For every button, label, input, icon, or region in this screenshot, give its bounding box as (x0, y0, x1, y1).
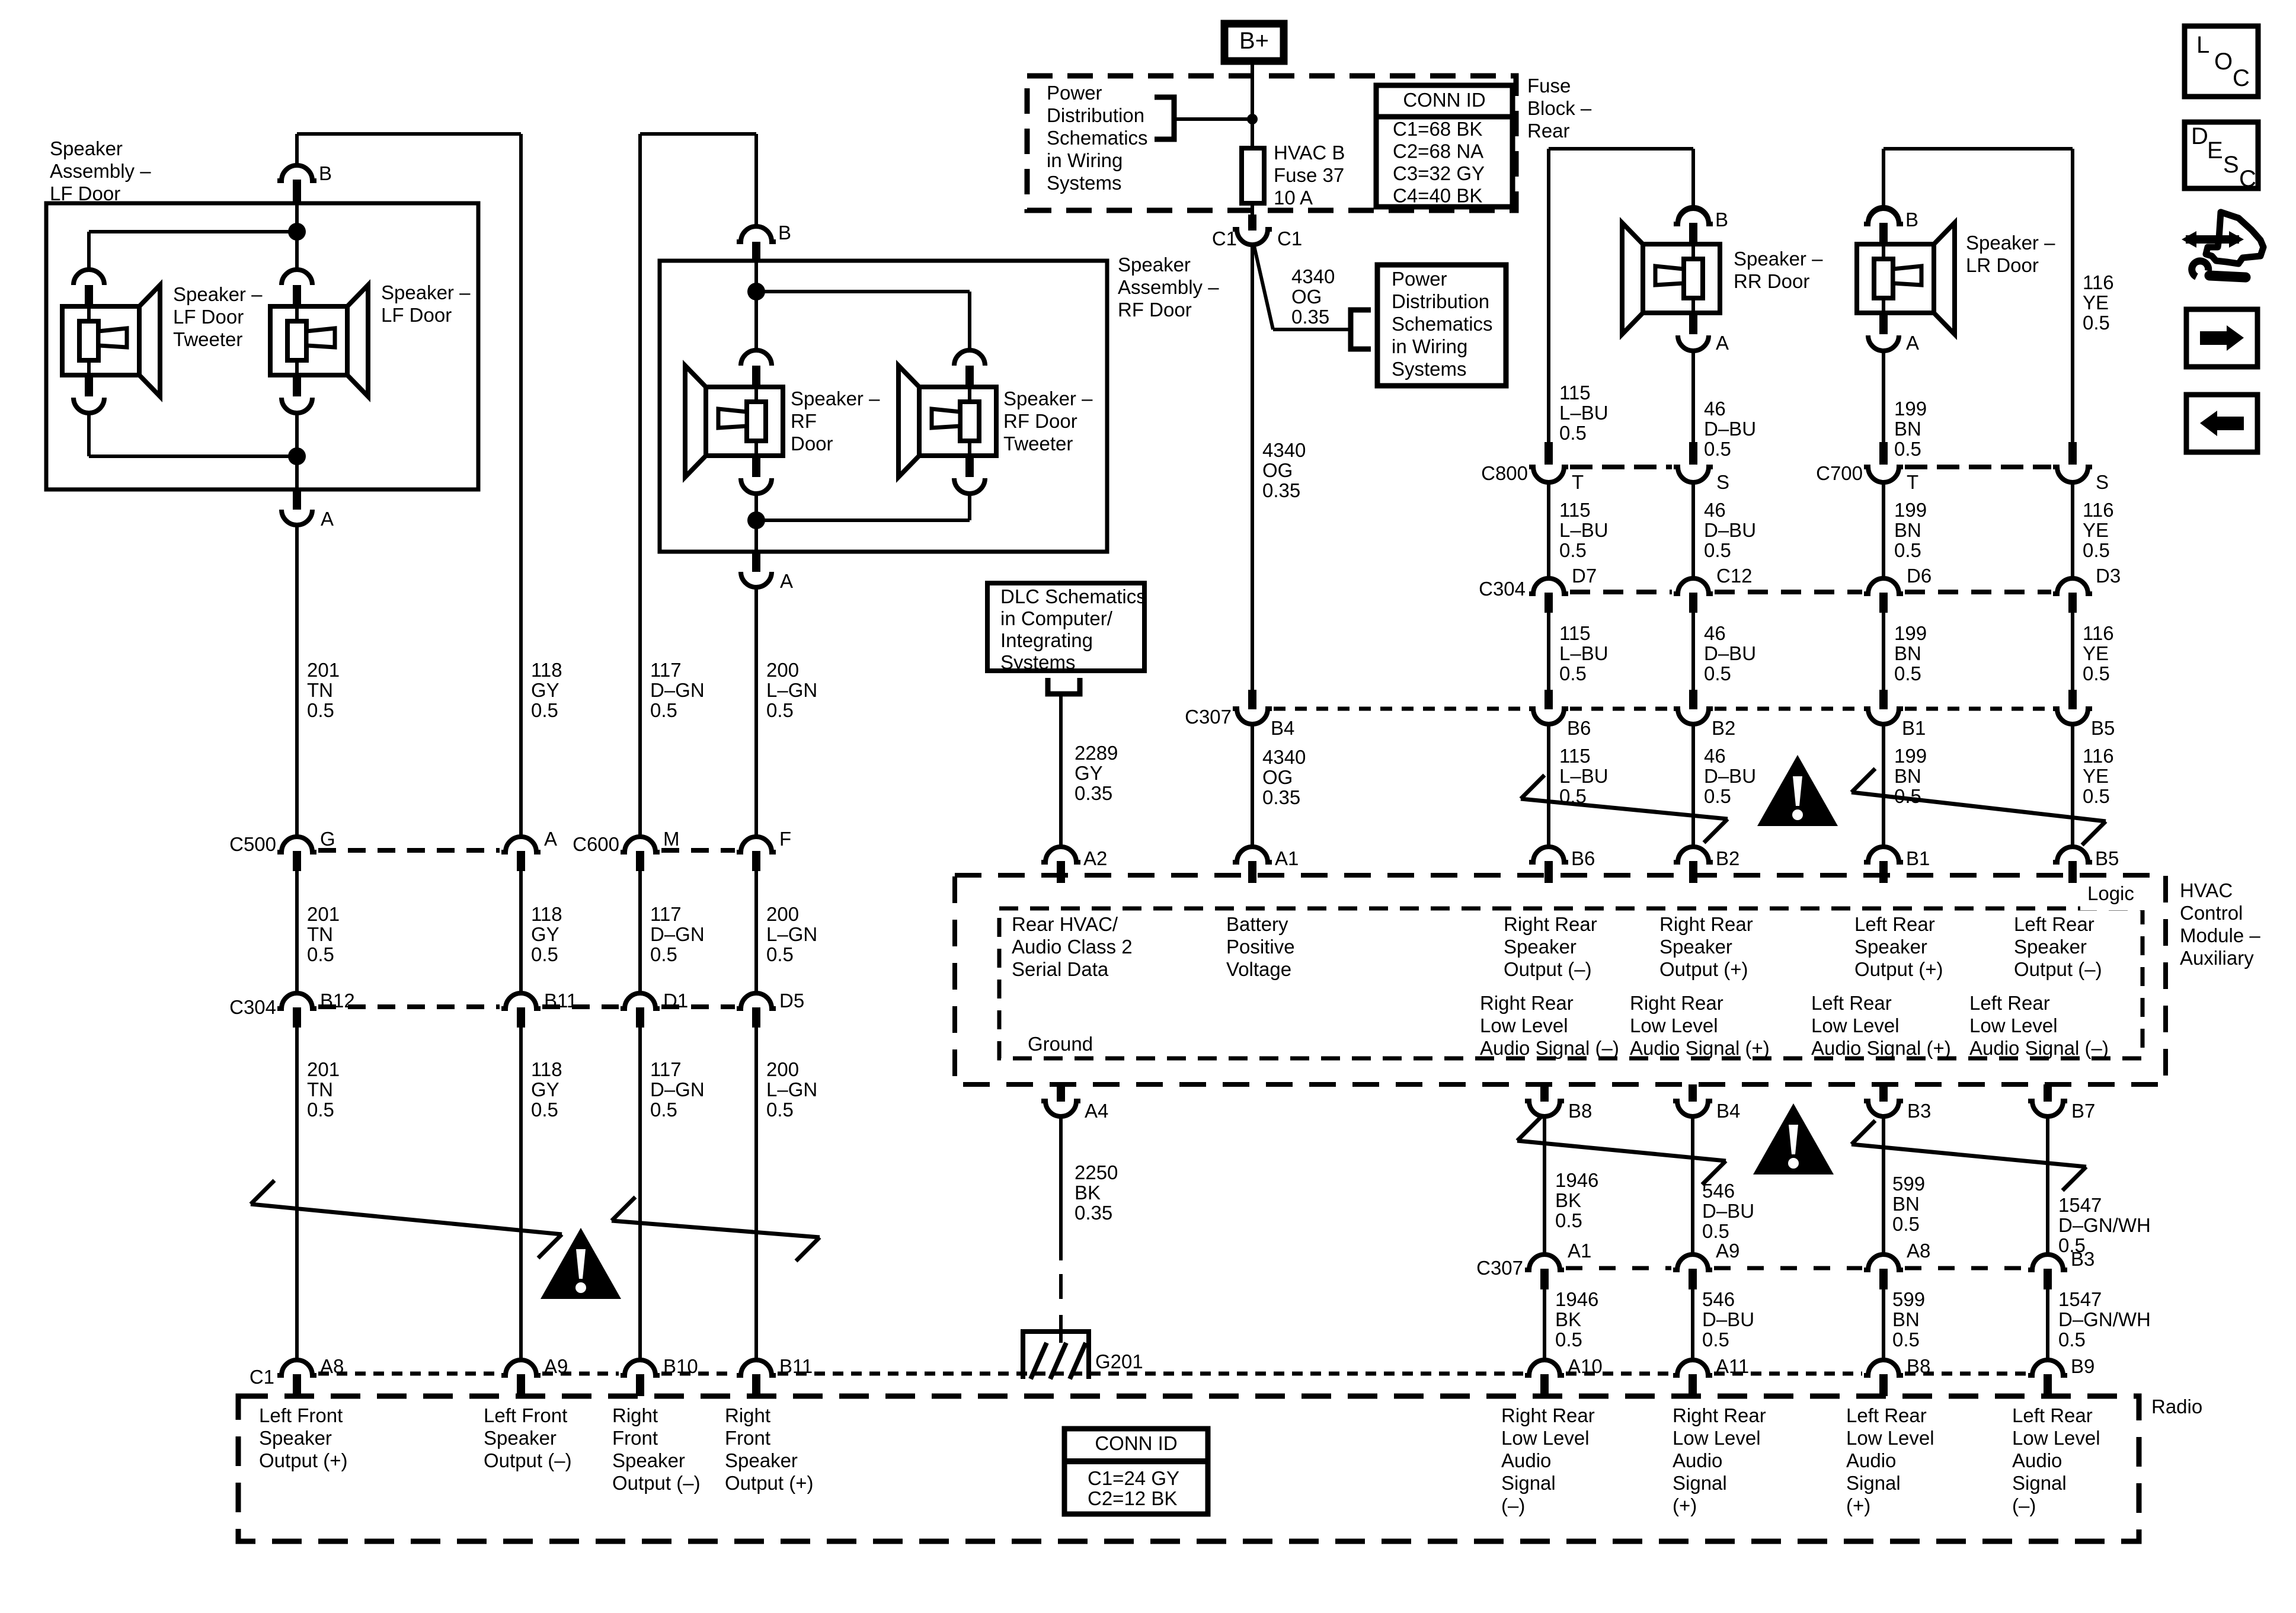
svg-text:B: B (319, 162, 332, 184)
svg-text:BN: BN (1894, 519, 1921, 541)
svg-text:Battery: Battery (1226, 913, 1288, 935)
svg-text:0.5: 0.5 (531, 943, 558, 965)
svg-text:0.5: 0.5 (2058, 1329, 2086, 1350)
svg-text:115: 115 (1559, 622, 1591, 644)
svg-text:46: 46 (1704, 622, 1726, 644)
svg-text:Distribution: Distribution (1047, 104, 1144, 126)
svg-text:Front: Front (725, 1427, 770, 1449)
svg-text:0.5: 0.5 (1702, 1329, 1729, 1350)
svg-text:B2: B2 (1716, 847, 1739, 869)
svg-text:116: 116 (2083, 499, 2114, 521)
svg-text:0.5: 0.5 (650, 1099, 677, 1121)
svg-text:S: S (1716, 471, 1729, 493)
svg-text:Signal: Signal (1846, 1472, 1901, 1494)
svg-text:D–BU: D–BU (1704, 642, 1756, 664)
svg-text:GY: GY (531, 679, 559, 701)
svg-text:(+): (+) (1846, 1494, 1870, 1516)
svg-text:Right Rear: Right Rear (1673, 1404, 1766, 1426)
svg-text:201: 201 (307, 1058, 340, 1080)
svg-text:L–BU: L–BU (1559, 402, 1609, 424)
svg-text:201: 201 (307, 903, 340, 925)
svg-text:1547: 1547 (2058, 1288, 2102, 1310)
svg-text:B3: B3 (1907, 1100, 1931, 1122)
svg-text:B: B (778, 222, 791, 244)
svg-text:HVAC B: HVAC B (1274, 142, 1345, 164)
svg-text:C: C (2239, 166, 2256, 192)
svg-text:RF: RF (791, 410, 817, 432)
svg-text:Right Rear: Right Rear (1480, 992, 1574, 1014)
svg-text:199: 199 (1894, 499, 1927, 521)
svg-text:Right Rear: Right Rear (1630, 992, 1723, 1014)
svg-text:Schematics: Schematics (1392, 313, 1493, 335)
svg-text:A4: A4 (1085, 1100, 1108, 1122)
svg-text:0.5: 0.5 (650, 699, 677, 721)
svg-text:A8: A8 (1907, 1240, 1930, 1262)
svg-text:0.5: 0.5 (307, 1099, 334, 1121)
svg-text:0.35: 0.35 (1262, 786, 1300, 808)
svg-text:OG: OG (1262, 459, 1293, 481)
svg-text:Speaker: Speaker (259, 1427, 332, 1449)
svg-text:118: 118 (531, 659, 562, 681)
svg-text:RR Door: RR Door (1734, 270, 1809, 292)
svg-text:L–BU: L–BU (1559, 765, 1609, 787)
svg-text:L–GN: L–GN (766, 923, 817, 945)
svg-text:0.5: 0.5 (1894, 539, 1921, 561)
svg-text:YE: YE (2083, 292, 2109, 313)
svg-text:Speaker –: Speaker – (1734, 248, 1823, 270)
svg-text:Module –: Module – (2180, 924, 2260, 946)
svg-text:TN: TN (307, 1078, 333, 1100)
svg-text:D–GN/WH: D–GN/WH (2058, 1308, 2151, 1330)
svg-text:Rear HVAC/: Rear HVAC/ (1012, 913, 1118, 935)
svg-text:B2: B2 (1712, 717, 1735, 739)
svg-text:D–BU: D–BU (1704, 418, 1756, 440)
svg-text:117: 117 (650, 1058, 682, 1080)
svg-text:0.35: 0.35 (1262, 479, 1300, 501)
svg-text:Auxiliary: Auxiliary (2180, 947, 2254, 969)
svg-text:0.5: 0.5 (1704, 663, 1731, 684)
svg-text:C800: C800 (1481, 462, 1528, 484)
svg-text:0.5: 0.5 (531, 1099, 558, 1121)
svg-text:599: 599 (1892, 1288, 1925, 1310)
svg-text:Audio Class 2: Audio Class 2 (1012, 936, 1133, 958)
svg-text:Speaker: Speaker (725, 1449, 798, 1471)
svg-text:LR Door: LR Door (1966, 254, 2039, 276)
svg-text:Low Level: Low Level (1846, 1427, 1934, 1449)
svg-text:Speaker –: Speaker – (1003, 388, 1093, 409)
svg-text:Low Level: Low Level (1630, 1014, 1718, 1036)
svg-text:O: O (2214, 49, 2233, 75)
svg-text:Signal: Signal (1501, 1472, 1556, 1494)
svg-text:L–GN: L–GN (766, 1078, 817, 1100)
svg-text:D–GN: D–GN (650, 923, 705, 945)
svg-text:0.35: 0.35 (1075, 782, 1112, 804)
svg-text:C: C (2233, 65, 2250, 91)
svg-text:B: B (1715, 209, 1728, 231)
svg-text:B6: B6 (1571, 847, 1595, 869)
svg-text:0.5: 0.5 (1555, 1329, 1582, 1350)
svg-text:Signal: Signal (1673, 1472, 1727, 1494)
svg-text:Tweeter: Tweeter (173, 328, 242, 350)
svg-text:Distribution: Distribution (1392, 290, 1489, 312)
svg-text:117: 117 (650, 659, 682, 681)
svg-text:0.5: 0.5 (1704, 539, 1731, 561)
svg-text:Output (–): Output (–) (612, 1472, 701, 1494)
svg-text:Signal: Signal (2012, 1472, 2067, 1494)
svg-text:199: 199 (1894, 398, 1927, 420)
svg-text:BK: BK (1555, 1189, 1581, 1211)
svg-text:118: 118 (531, 903, 562, 925)
svg-text:B6: B6 (1567, 717, 1591, 739)
svg-text:Speaker –: Speaker – (791, 388, 880, 409)
svg-text:Audio: Audio (2012, 1449, 2062, 1471)
svg-text:C1: C1 (250, 1366, 274, 1388)
svg-text:CONN ID: CONN ID (1095, 1432, 1177, 1454)
svg-text:0.5: 0.5 (1894, 663, 1921, 684)
svg-text:A2: A2 (1083, 847, 1107, 869)
svg-text:OG: OG (1262, 766, 1293, 788)
svg-text:0.5: 0.5 (1894, 438, 1921, 460)
svg-text:117: 117 (650, 903, 682, 925)
svg-text:Speaker: Speaker (1504, 936, 1576, 958)
svg-text:GY: GY (1075, 762, 1103, 784)
svg-text:200: 200 (766, 659, 799, 681)
svg-text:(–): (–) (2012, 1494, 2036, 1516)
svg-text:Assembly –: Assembly – (50, 160, 151, 182)
svg-text:GY: GY (531, 923, 559, 945)
svg-text:10 A: 10 A (1274, 187, 1313, 209)
svg-text:Left Front: Left Front (484, 1404, 567, 1426)
svg-text:0.5: 0.5 (307, 943, 334, 965)
svg-text:Output (+): Output (+) (725, 1472, 813, 1494)
svg-text:Left Rear: Left Rear (1811, 992, 1892, 1014)
svg-text:C1: C1 (1277, 228, 1302, 249)
svg-text:115: 115 (1559, 745, 1591, 767)
svg-text:4340: 4340 (1262, 746, 1306, 768)
svg-text:2250: 2250 (1075, 1161, 1118, 1183)
svg-text:C307: C307 (1476, 1257, 1523, 1279)
svg-text:Audio: Audio (1673, 1449, 1722, 1471)
svg-text:A: A (321, 508, 334, 530)
svg-text:0.5: 0.5 (1702, 1220, 1729, 1242)
svg-text:YE: YE (2083, 765, 2109, 787)
svg-text:Speaker –: Speaker – (1966, 232, 2055, 254)
svg-text:0.5: 0.5 (2083, 539, 2110, 561)
svg-text:Schematics: Schematics (1047, 127, 1148, 149)
svg-text:Speaker: Speaker (1659, 936, 1732, 958)
svg-text:B5: B5 (2091, 717, 2115, 739)
svg-text:A9: A9 (1716, 1240, 1739, 1262)
svg-text:C304: C304 (1479, 578, 1526, 600)
svg-text:BN: BN (1894, 765, 1921, 787)
svg-text:201: 201 (307, 659, 340, 681)
svg-text:D–BU: D–BU (1704, 765, 1756, 787)
svg-text:C307: C307 (1185, 706, 1232, 728)
svg-text:0.5: 0.5 (2083, 785, 2110, 807)
svg-text:Audio: Audio (1501, 1449, 1551, 1471)
svg-text:0.5: 0.5 (531, 699, 558, 721)
svg-text:Speaker: Speaker (50, 137, 123, 159)
svg-text:Speaker –: Speaker – (173, 283, 263, 305)
svg-text:2289: 2289 (1075, 742, 1118, 764)
svg-text:Right: Right (612, 1404, 658, 1426)
svg-text:0.5: 0.5 (2083, 312, 2110, 334)
svg-text:D–GN: D–GN (650, 1078, 705, 1100)
svg-text:L–GN: L–GN (766, 679, 817, 701)
svg-text:Output (–): Output (–) (1504, 958, 1592, 980)
svg-text:199: 199 (1894, 622, 1927, 644)
svg-text:RF Door: RF Door (1118, 299, 1192, 321)
svg-text:B: B (1905, 209, 1918, 231)
svg-text:46: 46 (1704, 745, 1726, 767)
svg-text:1946: 1946 (1555, 1288, 1598, 1310)
svg-text:Fuse 37: Fuse 37 (1274, 164, 1344, 186)
svg-text:YE: YE (2083, 642, 2109, 664)
svg-text:Left Rear: Left Rear (1846, 1404, 1927, 1426)
svg-text:Output (+): Output (+) (1659, 958, 1748, 980)
svg-text:116: 116 (2083, 271, 2114, 293)
svg-text:F: F (779, 828, 791, 850)
svg-text:546: 546 (1702, 1180, 1735, 1202)
svg-text:LF Door: LF Door (50, 183, 120, 204)
svg-text:OG: OG (1291, 286, 1322, 308)
svg-text:D–BU: D–BU (1702, 1308, 1754, 1330)
svg-text:B4: B4 (1271, 717, 1294, 739)
svg-text:546: 546 (1702, 1288, 1735, 1310)
svg-text:Control: Control (2180, 902, 2243, 924)
svg-text:Output (–): Output (–) (2014, 958, 2102, 980)
svg-text:Audio Signal (+): Audio Signal (+) (1811, 1037, 1951, 1059)
svg-text:C304: C304 (229, 996, 276, 1018)
svg-text:4340: 4340 (1291, 265, 1335, 287)
svg-text:Speaker: Speaker (2014, 936, 2087, 958)
svg-text:Left Front: Left Front (259, 1404, 343, 1426)
svg-text:G: G (320, 828, 335, 850)
svg-text:Integrating: Integrating (1000, 629, 1093, 651)
svg-text:G201: G201 (1095, 1350, 1143, 1372)
svg-text:Power: Power (1047, 82, 1102, 104)
svg-text:(–): (–) (1501, 1494, 1525, 1516)
svg-text:(+): (+) (1673, 1494, 1697, 1516)
svg-text:M: M (663, 828, 680, 850)
svg-text:Low Level: Low Level (1969, 1014, 2058, 1036)
svg-text:1547: 1547 (2058, 1194, 2102, 1216)
svg-text:D–GN: D–GN (650, 679, 705, 701)
svg-text:Audio Signal (–): Audio Signal (–) (1480, 1037, 1619, 1059)
svg-text:4340: 4340 (1262, 439, 1306, 461)
svg-text:115: 115 (1559, 499, 1591, 521)
svg-text:0.5: 0.5 (766, 699, 794, 721)
svg-text:0.5: 0.5 (1559, 663, 1587, 684)
svg-text:Low Level: Low Level (1673, 1427, 1761, 1449)
svg-text:Low Level: Low Level (1480, 1014, 1568, 1036)
svg-text:B3: B3 (2071, 1248, 2094, 1270)
svg-text:D3: D3 (2096, 565, 2121, 587)
svg-text:L–BU: L–BU (1559, 519, 1609, 541)
svg-text:Low Level: Low Level (1501, 1427, 1590, 1449)
svg-text:Right Rear: Right Rear (1504, 913, 1597, 935)
svg-text:BN: BN (1892, 1193, 1920, 1215)
svg-text:599: 599 (1892, 1173, 1925, 1195)
svg-text:Left Rear: Left Rear (2012, 1404, 2093, 1426)
svg-text:Output (+): Output (+) (259, 1449, 347, 1471)
svg-text:0.35: 0.35 (1291, 306, 1329, 328)
svg-text:T: T (1907, 471, 1918, 493)
svg-text:Left Rear: Left Rear (1854, 913, 1935, 935)
svg-text:0.5: 0.5 (766, 943, 794, 965)
svg-text:T: T (1572, 471, 1584, 493)
svg-text:Power: Power (1392, 268, 1447, 290)
svg-text:B8: B8 (1568, 1100, 1592, 1122)
svg-text:B4: B4 (1716, 1100, 1740, 1122)
svg-text:Output (–): Output (–) (484, 1449, 572, 1471)
svg-text:0.5: 0.5 (307, 699, 334, 721)
svg-text:Output (+): Output (+) (1854, 958, 1943, 980)
svg-text:S: S (2096, 471, 2109, 493)
svg-text:C4=40 BK: C4=40 BK (1393, 185, 1482, 207)
svg-text:A: A (780, 570, 793, 592)
svg-text:1946: 1946 (1555, 1169, 1598, 1191)
svg-text:L–BU: L–BU (1559, 642, 1609, 664)
svg-text:116: 116 (2083, 745, 2114, 767)
svg-text:Low Level: Low Level (1811, 1014, 1900, 1036)
svg-text:Door: Door (791, 433, 833, 455)
svg-text:DLC Schematics: DLC Schematics (1000, 585, 1146, 607)
svg-text:Ground: Ground (1028, 1033, 1093, 1055)
svg-text:C700: C700 (1816, 462, 1863, 484)
svg-text:46: 46 (1704, 398, 1726, 420)
svg-text:in Wiring: in Wiring (1392, 335, 1467, 357)
svg-text:Systems: Systems (1392, 358, 1467, 380)
svg-text:Tweeter: Tweeter (1003, 433, 1073, 455)
svg-text:B9: B9 (2071, 1355, 2094, 1377)
svg-text:C1=24 GY: C1=24 GY (1088, 1467, 1179, 1489)
svg-text:A1: A1 (1275, 847, 1299, 869)
svg-text:BK: BK (1075, 1182, 1101, 1204)
svg-text:D7: D7 (1572, 565, 1597, 587)
svg-text:C2=68 NA: C2=68 NA (1393, 140, 1483, 162)
svg-text:D5: D5 (779, 990, 804, 1012)
svg-text:0.5: 0.5 (1555, 1209, 1582, 1231)
svg-text:Left Rear: Left Rear (2014, 913, 2094, 935)
svg-text:L: L (2196, 32, 2209, 58)
svg-text:D–GN/WH: D–GN/WH (2058, 1214, 2151, 1236)
svg-text:199: 199 (1894, 745, 1927, 767)
svg-text:Speaker: Speaker (484, 1427, 557, 1449)
svg-text:C1: C1 (1212, 228, 1237, 249)
svg-text:Systems: Systems (1000, 651, 1076, 673)
svg-text:HVAC: HVAC (2180, 879, 2233, 901)
svg-text:0.5: 0.5 (766, 1099, 794, 1121)
svg-text:0.5: 0.5 (2083, 663, 2110, 684)
svg-text:0.5: 0.5 (1892, 1329, 1920, 1350)
svg-text:C1=68 BK: C1=68 BK (1393, 118, 1482, 140)
svg-text:E: E (2207, 137, 2223, 164)
svg-text:A1: A1 (1568, 1240, 1591, 1262)
svg-text:GY: GY (531, 1078, 559, 1100)
svg-text:Front: Front (612, 1427, 658, 1449)
svg-text:C600: C600 (573, 833, 619, 855)
svg-text:D: D (2191, 123, 2208, 149)
svg-text:CONN ID: CONN ID (1403, 89, 1485, 111)
svg-text:TN: TN (307, 679, 333, 701)
svg-text:YE: YE (2083, 519, 2109, 541)
svg-text:B1: B1 (1906, 847, 1930, 869)
svg-text:BN: BN (1892, 1308, 1920, 1330)
svg-text:0.5: 0.5 (1892, 1213, 1920, 1235)
svg-text:Radio: Radio (2151, 1396, 2202, 1417)
svg-text:Rear: Rear (1527, 120, 1570, 142)
svg-text:BN: BN (1894, 418, 1921, 440)
svg-text:200: 200 (766, 903, 799, 925)
svg-text:0.5: 0.5 (1704, 438, 1731, 460)
svg-text:C500: C500 (229, 833, 276, 855)
svg-text:Speaker: Speaker (612, 1449, 685, 1471)
svg-text:Audio Signal (–): Audio Signal (–) (1969, 1037, 2109, 1059)
svg-text:Speaker: Speaker (1854, 936, 1927, 958)
svg-text:A: A (1906, 332, 1919, 354)
svg-text:Systems: Systems (1047, 172, 1122, 194)
svg-text:Left Rear: Left Rear (1969, 992, 2050, 1014)
svg-text:D–BU: D–BU (1702, 1200, 1754, 1222)
svg-text:C3=32 GY: C3=32 GY (1393, 162, 1485, 184)
svg-text:Assembly –: Assembly – (1118, 276, 1219, 298)
svg-text:Serial Data: Serial Data (1012, 958, 1109, 980)
svg-text:B+: B+ (1239, 28, 1269, 54)
svg-text:200: 200 (766, 1058, 799, 1080)
svg-text:Right: Right (725, 1404, 770, 1426)
svg-text:C2=12 BK: C2=12 BK (1088, 1487, 1177, 1509)
svg-text:Positive: Positive (1226, 936, 1295, 958)
svg-text:BK: BK (1555, 1308, 1581, 1330)
svg-text:Logic: Logic (2087, 882, 2134, 904)
svg-text:0.5: 0.5 (1559, 422, 1587, 444)
svg-text:LF Door: LF Door (381, 304, 452, 326)
svg-text:Fuse: Fuse (1527, 75, 1571, 97)
svg-text:C12: C12 (1716, 565, 1753, 587)
svg-text:in Wiring: in Wiring (1047, 149, 1123, 171)
svg-text:118: 118 (531, 1058, 562, 1080)
svg-text:0.5: 0.5 (650, 943, 677, 965)
svg-text:Low Level: Low Level (2012, 1427, 2100, 1449)
svg-text:115: 115 (1559, 382, 1591, 404)
svg-text:in Computer/: in Computer/ (1000, 607, 1113, 629)
svg-text:TN: TN (307, 923, 333, 945)
svg-text:Audio Signal (+): Audio Signal (+) (1630, 1037, 1770, 1059)
svg-text:A: A (1716, 332, 1729, 354)
svg-text:Right Rear: Right Rear (1501, 1404, 1595, 1426)
svg-text:Voltage: Voltage (1226, 958, 1291, 980)
svg-text:B7: B7 (2071, 1100, 2095, 1122)
svg-text:46: 46 (1704, 499, 1726, 521)
svg-text:0.35: 0.35 (1075, 1202, 1112, 1224)
svg-text:S: S (2223, 152, 2239, 178)
svg-text:0.5: 0.5 (1559, 539, 1587, 561)
svg-text:D–BU: D–BU (1704, 519, 1756, 541)
svg-text:A: A (544, 828, 557, 850)
svg-text:Speaker –: Speaker – (381, 281, 471, 303)
svg-text:RF Door: RF Door (1003, 410, 1077, 432)
svg-text:BN: BN (1894, 642, 1921, 664)
svg-text:116: 116 (2083, 622, 2114, 644)
svg-text:Block –: Block – (1527, 97, 1592, 119)
svg-text:D6: D6 (1907, 565, 1932, 587)
svg-text:LF Door: LF Door (173, 306, 244, 328)
svg-text:0.5: 0.5 (1704, 785, 1731, 807)
svg-text:B1: B1 (1902, 717, 1926, 739)
svg-text:Speaker: Speaker (1118, 254, 1191, 276)
svg-text:Audio: Audio (1846, 1449, 1896, 1471)
